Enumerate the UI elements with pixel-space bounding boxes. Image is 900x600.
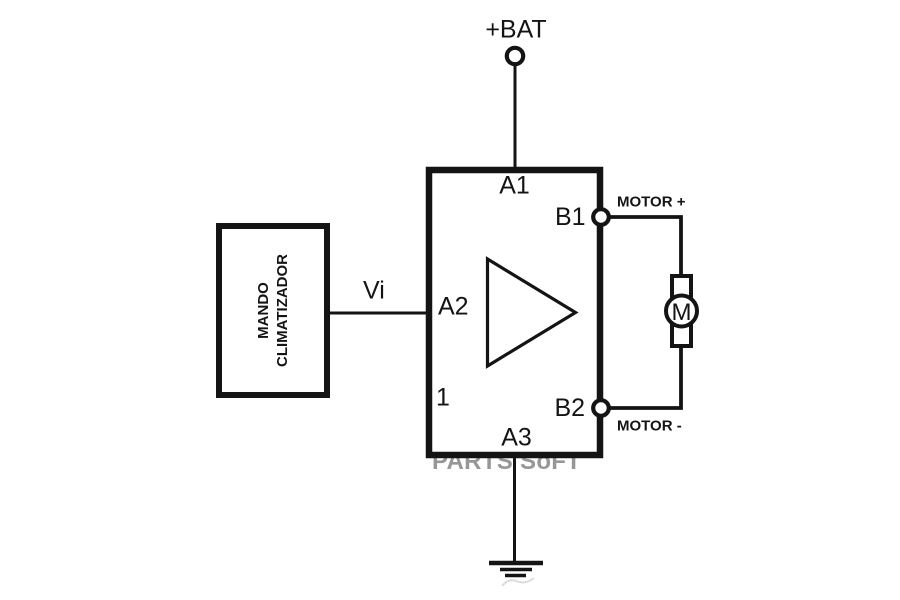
wire B1 to motor	[601, 217, 681, 278]
label MANDO CLIMATIZADOR	[255, 254, 291, 367]
svg-text:1: 1	[436, 384, 450, 412]
wire +BAT to A1	[514, 66, 517, 170]
op-amp triangle	[488, 259, 576, 366]
ground bar 2	[500, 568, 532, 572]
svg-text:A2: A2	[438, 293, 469, 321]
amplifier module box U1	[429, 170, 600, 455]
svg-text:Vi: Vi	[363, 277, 385, 305]
svg-text:A3: A3	[501, 424, 532, 452]
svg-text:MOTOR -: MOTOR -	[617, 418, 682, 435]
motor M body	[672, 276, 691, 346]
svg-text:MOTOR +: MOTOR +	[617, 194, 686, 211]
wire motor to B2	[601, 346, 681, 408]
motor M circle	[666, 296, 697, 327]
svg-text:A1: A1	[499, 172, 530, 200]
terminal B2	[593, 400, 609, 416]
svg-text:B2: B2	[555, 394, 586, 422]
svg-text:MANDO: MANDO	[255, 282, 272, 339]
ground bar 1	[489, 561, 543, 566]
svg-text:M: M	[672, 299, 692, 326]
ground bar 3	[505, 574, 526, 578]
terminal B1	[593, 209, 609, 225]
wire Vi	[327, 312, 432, 315]
svg-text:CLIMATIZADOR: CLIMATIZADOR	[274, 254, 291, 367]
svg-text:+BAT: +BAT	[485, 16, 546, 44]
box MANDO CLIMATIZADOR	[219, 226, 327, 395]
watermark squiggle	[502, 578, 534, 586]
terminal +BAT	[507, 48, 523, 64]
svg-text:B1: B1	[555, 203, 586, 231]
wire A3 to ground	[513, 455, 516, 563]
